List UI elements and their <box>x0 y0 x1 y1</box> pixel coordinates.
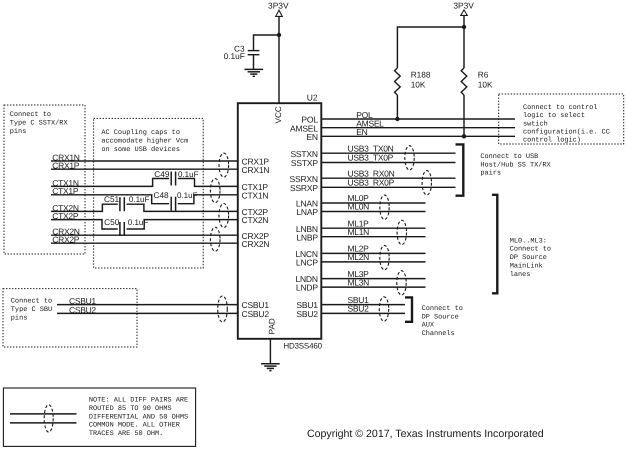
wire EN <box>321 127 515 137</box>
annotation box: Connect to Type C SSTX/RX pins <box>4 105 85 254</box>
label C49 value 0.1uF <box>178 170 199 179</box>
wire ML3N <box>321 277 425 287</box>
svg-text:AUX: AUX <box>422 322 435 330</box>
pin SSRXP label <box>290 183 318 193</box>
pin CTX1N label <box>242 190 269 200</box>
label C3 refdes <box>234 43 245 53</box>
svg-text:ML0..ML3:: ML0..ML3: <box>510 237 547 245</box>
label C51 value 0.1uF <box>129 195 150 204</box>
diff pair marker CRX2 <box>210 227 220 251</box>
svg-text:C49: C49 <box>154 169 170 179</box>
svg-text:U2: U2 <box>307 93 318 103</box>
svg-text:CTX2P: CTX2P <box>52 211 79 221</box>
power 3P3V rail left <box>268 0 289 16</box>
svg-text:lanes: lanes <box>510 271 531 279</box>
label R6 value 10K <box>478 80 493 90</box>
wire ML0P <box>321 193 425 203</box>
capacitor C49 <box>171 172 175 186</box>
svg-text:COMMON MODE. ALL OTHER: COMMON MODE. ALL OTHER <box>89 422 180 430</box>
pin LNCN label <box>295 249 317 259</box>
wire CRX2P <box>51 235 238 245</box>
pin POL label <box>301 115 318 125</box>
pin SBU2 label <box>296 309 318 319</box>
svg-text:0.1uF: 0.1uF <box>128 218 149 227</box>
svg-text:ML1N: ML1N <box>348 227 370 237</box>
wire CTX2N through C51 <box>51 203 238 213</box>
svg-text:LNAP: LNAP <box>296 207 318 217</box>
svg-text:Copyright © 2017, Texas Instru: Copyright © 2017, Texas Instruments Inco… <box>307 428 544 440</box>
svg-text:Channels: Channels <box>422 330 455 338</box>
label R188 value 10K <box>411 80 426 90</box>
svg-text:ML3N: ML3N <box>348 277 370 287</box>
svg-text:CRX1N: CRX1N <box>242 165 270 175</box>
diff pair marker USB3_RX0 <box>422 171 431 195</box>
ground below U2 PAD <box>261 364 280 371</box>
svg-text:DP Source: DP Source <box>422 313 459 321</box>
svg-text:pins: pins <box>11 314 28 322</box>
wire SBU1 <box>321 295 405 305</box>
svg-text:Connect to: Connect to <box>11 298 52 306</box>
svg-text:10K: 10K <box>478 80 493 90</box>
diff pair marker ML1 <box>397 220 406 244</box>
svg-text:CTX1P: CTX1P <box>52 186 79 196</box>
annotation ML0..ML3 DP Source MainLink <box>510 237 551 279</box>
wire CRX1P <box>51 161 238 171</box>
annotation Connect to USB Host/Hub <box>480 153 551 178</box>
pin LNDP label <box>296 283 318 293</box>
diff pair marker CTX1 <box>210 179 220 203</box>
pin LNBN label <box>296 224 318 234</box>
svg-text:VCC: VCC <box>274 106 283 123</box>
label C51 refdes <box>104 194 120 204</box>
svg-text:pins: pins <box>10 128 27 136</box>
svg-text:logic to select: logic to select <box>523 112 585 120</box>
wire ML3P <box>321 269 425 279</box>
annotation box: Connect to control logic <box>499 94 624 145</box>
pin SBU1 label <box>296 300 318 310</box>
pin LNDN label <box>295 274 317 284</box>
wire R6 to EN net <box>463 95 465 136</box>
svg-text:pairs: pairs <box>480 170 501 178</box>
diff pair marker CRX1 <box>219 153 229 177</box>
node junction 3P3V/C3 <box>277 33 281 37</box>
svg-text:CRX1P: CRX1P <box>52 161 79 171</box>
wire USB3_RX0N <box>321 168 455 178</box>
label R188 refdes <box>411 70 431 80</box>
pin CSBU1 label <box>242 300 270 310</box>
svg-text:LNCP: LNCP <box>296 258 318 268</box>
wire ML0N <box>321 202 425 212</box>
label U2 refdes <box>307 93 318 103</box>
svg-text:HD3SS460: HD3SS460 <box>283 341 322 350</box>
diff pair marker ML3 <box>397 271 406 295</box>
svg-text:R6: R6 <box>478 70 489 80</box>
svg-text:EN: EN <box>356 127 367 137</box>
pin CRX2N label <box>242 239 270 249</box>
svg-text:CSBU2: CSBU2 <box>242 309 270 319</box>
op-amp U2 IC body HD3SS460 <box>238 103 321 339</box>
label C50 refdes <box>104 217 120 227</box>
bracket USB SS pairs <box>456 144 464 195</box>
svg-text:3P3V: 3P3V <box>268 0 289 10</box>
pin LNAP label <box>296 207 318 217</box>
svg-text:CTX1N: CTX1N <box>242 190 269 200</box>
capacitor C3 <box>248 51 260 70</box>
wire branch to R188 <box>397 27 464 68</box>
wire AMSEL <box>321 119 515 129</box>
pin LNBP label <box>296 232 318 242</box>
pin CTX1P label <box>242 182 269 192</box>
svg-text:Host/Hub SS TX/RX: Host/Hub SS TX/RX <box>480 161 551 169</box>
node junction R6/EN <box>462 134 466 138</box>
ground below C3 <box>245 69 264 76</box>
svg-text:AC Coupling caps to: AC Coupling caps to <box>101 129 180 137</box>
svg-text:CRX2N: CRX2N <box>242 239 270 249</box>
pin CSBU2 label <box>242 309 270 319</box>
svg-text:SBU2: SBU2 <box>296 309 318 319</box>
wire CRX1N <box>51 152 238 162</box>
label C48 value 0.1uF <box>177 191 198 200</box>
pin CRX1P label <box>242 157 270 167</box>
pin CRX2P label <box>242 231 270 241</box>
wire R188 to POL net <box>396 95 398 119</box>
svg-text:Connect to control: Connect to control <box>523 104 597 112</box>
svg-text:0.1uF: 0.1uF <box>178 170 199 179</box>
svg-text:C48: C48 <box>153 190 169 200</box>
svg-text:Type C SSTX/RX: Type C SSTX/RX <box>10 119 69 127</box>
wire CSBU2 <box>57 305 238 315</box>
wire SBU2 <box>321 304 405 314</box>
svg-text:CRX2P: CRX2P <box>52 235 79 245</box>
pin CTX2N label <box>242 215 269 225</box>
svg-text:Connect to USB: Connect to USB <box>480 153 538 161</box>
svg-text:control logic): control logic) <box>523 137 581 145</box>
bracket MainLink lanes <box>492 195 497 293</box>
svg-text:0.1uF: 0.1uF <box>177 191 198 200</box>
svg-text:EN: EN <box>306 132 317 142</box>
svg-text:NOTE: ALL DIFF PAIRS ARE: NOTE: ALL DIFF PAIRS ARE <box>89 397 188 405</box>
node junction R188/POL <box>395 117 399 121</box>
svg-text:PAD: PAD <box>267 318 276 334</box>
pin PAD label <box>267 318 276 334</box>
bracket SBU AUX <box>405 297 412 321</box>
diff pair marker ML0 <box>380 195 389 219</box>
wire branch to C3 <box>254 35 280 50</box>
label R6 refdes <box>478 70 489 80</box>
note box: diff pair routing note <box>3 388 195 446</box>
wire POL <box>321 110 515 120</box>
diff pair marker ML2 <box>380 245 389 269</box>
svg-text:ML2N: ML2N <box>348 252 370 262</box>
capacitor C50 <box>120 222 124 236</box>
svg-text:configuration(i.e. CC: configuration(i.e. CC <box>523 129 610 137</box>
wire CTX1N through C49 <box>51 178 238 188</box>
svg-text:DIFFERENTIAL AND 50 OHMS: DIFFERENTIAL AND 50 OHMS <box>89 413 188 421</box>
wire 3P3V to VCC pin <box>278 16 280 103</box>
svg-text:ML0N: ML0N <box>348 202 370 212</box>
pin CTX2P label <box>242 207 269 217</box>
svg-text:C50: C50 <box>104 217 120 227</box>
pin LNCP label <box>296 258 318 268</box>
svg-text:3P3V: 3P3V <box>453 0 474 10</box>
svg-text:CSBU2: CSBU2 <box>69 305 96 315</box>
capacitor C48 <box>171 197 175 211</box>
diff pair marker USB3_TX0 <box>405 146 414 170</box>
svg-text:LNBP: LNBP <box>296 232 318 242</box>
svg-text:C51: C51 <box>104 194 120 204</box>
svg-text:USB3_TX0P: USB3_TX0P <box>348 153 394 163</box>
pin SSRXN label <box>290 174 318 184</box>
diff pair marker SBU <box>379 297 388 321</box>
label C48 refdes <box>153 190 169 200</box>
annotation Connect to DP Source AUX <box>422 305 463 338</box>
wire CSBU1 <box>57 296 238 306</box>
diff pair marker note example <box>44 405 53 432</box>
diff pair marker CTX2 <box>219 204 229 228</box>
pin VCC label <box>274 106 283 123</box>
wire ML1N <box>321 227 425 237</box>
svg-text:CTX2N: CTX2N <box>242 215 269 225</box>
pin AMSEL label <box>290 123 318 133</box>
pin EN label <box>306 132 317 142</box>
pin SSTXP label <box>291 158 318 168</box>
wire USB3_TX0N <box>321 143 455 153</box>
svg-text:DP Source: DP Source <box>510 254 547 262</box>
wire USB3_TX0P <box>321 153 455 163</box>
resistor R6 <box>461 68 467 95</box>
svg-text:10K: 10K <box>411 80 426 90</box>
svg-text:Connect to: Connect to <box>422 305 463 313</box>
svg-text:accomodate higher Vcm: accomodate higher Vcm <box>101 137 188 145</box>
label C3 value 0.1uF <box>224 51 245 61</box>
power 3P3V rail right <box>453 0 474 15</box>
pin CRX1N label <box>242 165 270 175</box>
svg-text:SSRXP: SSRXP <box>290 183 318 193</box>
label C49 refdes <box>154 169 170 179</box>
svg-text:R188: R188 <box>411 70 431 80</box>
wire ML1P <box>321 218 425 228</box>
wire CTX2P through C50 <box>51 211 238 229</box>
label C50 value 0.1uF <box>128 218 149 227</box>
annotation box: Connect to Type C SBU pins <box>3 289 137 347</box>
wire 3P3V down to R6 <box>463 15 465 68</box>
capacitor C51 <box>120 197 124 211</box>
label HD3SS460 part number <box>283 341 322 350</box>
svg-text:SBU2: SBU2 <box>348 304 370 314</box>
pin SSTXN label <box>290 149 317 159</box>
svg-text:TRACES ARE 50 OHM.: TRACES ARE 50 OHM. <box>89 430 163 438</box>
wire ML2P <box>321 244 425 254</box>
wire ML2N <box>321 252 425 262</box>
annotation box: AC coupling caps note <box>94 118 204 268</box>
svg-text:0.1uF: 0.1uF <box>129 195 150 204</box>
svg-text:Connect to: Connect to <box>510 246 551 254</box>
svg-text:USB3_RX0P: USB3_RX0P <box>348 178 395 188</box>
svg-text:Connect to: Connect to <box>10 111 51 119</box>
wire CTX1P through C48 <box>51 186 238 204</box>
svg-text:0.1uF: 0.1uF <box>224 51 245 61</box>
label copyright <box>307 428 544 440</box>
svg-text:MainLink: MainLink <box>510 263 543 271</box>
pin LNAN label <box>296 199 318 209</box>
wire PAD to ground <box>269 339 271 364</box>
svg-text:on some USB devices: on some USB devices <box>101 146 180 154</box>
svg-text:Type C SBU: Type C SBU <box>11 306 52 314</box>
svg-text:ROUTED 85 TO 90 OHMS: ROUTED 85 TO 90 OHMS <box>89 405 172 413</box>
wire USB3_RX0P <box>321 178 455 188</box>
svg-text:SSTXP: SSTXP <box>291 158 318 168</box>
wire note example pair <box>10 414 77 423</box>
wire CRX2N <box>51 227 238 237</box>
svg-text:LNDP: LNDP <box>296 283 318 293</box>
svg-text:swtich: swtich <box>523 120 548 128</box>
diff pair marker CSBU <box>218 296 228 322</box>
node junction 3P3V/R188 branch <box>462 25 466 29</box>
resistor R188 <box>395 68 401 95</box>
